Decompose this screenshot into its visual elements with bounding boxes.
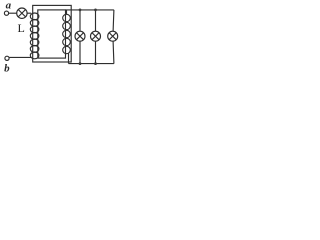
wire lamp L to primary coil [27, 12, 31, 14]
svg-text:a: a [6, 0, 12, 12]
junction dot bottom 1 [79, 62, 82, 65]
svg-text:b: b [4, 63, 10, 75]
lamp branch 2 wire [95, 10, 97, 64]
transformer core inner [38, 10, 66, 58]
junction dot top 2 [94, 9, 97, 12]
top rail [66, 9, 114, 11]
junction dot top 1 [79, 9, 82, 12]
lamp X1 [75, 31, 85, 41]
wire a to lamp L [9, 12, 17, 14]
secondary coil S1 [63, 14, 71, 53]
svg-text:L: L [18, 21, 25, 35]
lamp branch 1 wire [79, 10, 81, 64]
lamp X3 [108, 31, 118, 41]
lamp branch 3 wire [112, 10, 115, 64]
secondary bottom lead [68, 54, 70, 64]
primary coil P1 [30, 13, 39, 59]
terminal b [5, 56, 9, 60]
junction dot bottom 2 [94, 62, 97, 65]
lamp L [17, 8, 27, 18]
lamp X2 [91, 31, 101, 41]
terminal a [4, 11, 8, 15]
secondary top lead [66, 10, 68, 15]
transformer core outer [33, 5, 71, 62]
bottom rail [69, 63, 114, 65]
wire b to primary coil [9, 56, 31, 58]
